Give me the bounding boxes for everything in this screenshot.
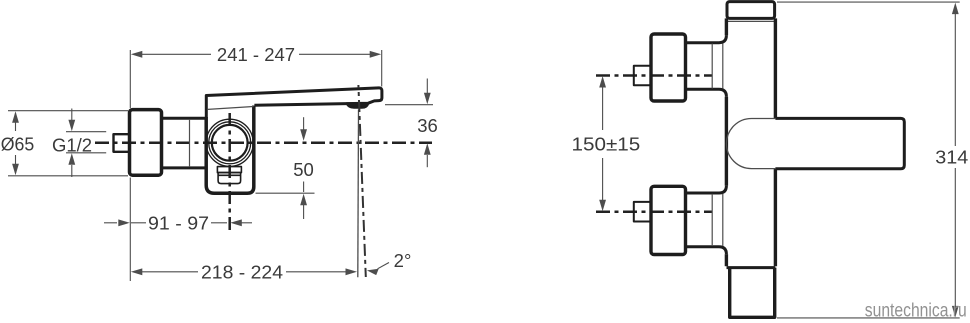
spout side view (206, 88, 382, 118)
centerline left view (95, 142, 432, 145)
water stream axis dashed (358, 85, 365, 277)
water stream solid (357, 110, 360, 278)
escutcheon side view (130, 110, 162, 176)
dimension G1/2 (66, 109, 106, 178)
svg-text:2°: 2° (394, 250, 412, 271)
svg-text:91 - 97: 91 - 97 (148, 212, 209, 233)
spout underside thin line (208, 107, 254, 110)
bottom ledge (727, 266, 776, 269)
bottom cap (730, 268, 775, 318)
column right edge (774, 18, 777, 266)
bottom neck (686, 186, 727, 255)
top cap (727, 2, 775, 22)
dimension 218-224 (131, 268, 357, 275)
column left edge (725, 18, 728, 266)
centerline cartridge vertical (228, 113, 231, 233)
dimension 36 (385, 79, 433, 168)
bottom handle (651, 186, 686, 254)
svg-text:36: 36 (417, 115, 438, 136)
centerline bottom valve (596, 210, 712, 213)
top nut (634, 66, 651, 86)
bottom nut (634, 202, 651, 222)
svg-text:218 - 224: 218 - 224 (201, 261, 283, 282)
svg-text:50: 50 (293, 159, 314, 180)
leader 2deg (367, 263, 389, 276)
dimension 241-247 (130, 50, 381, 108)
dimension 314 (777, 2, 960, 318)
svg-text:Ø65: Ø65 (1, 134, 35, 155)
body side view (206, 106, 254, 194)
svg-text:suntechnica.ru: suntechnica.ru (865, 301, 967, 322)
dimension 50 (256, 117, 315, 219)
spout front view (726, 118, 904, 168)
top neck (686, 35, 727, 96)
dimension 91-97 (104, 178, 252, 282)
dimension 150+-15 (599, 76, 606, 211)
inlet pipe G1/2 (114, 134, 130, 152)
svg-text:150±15: 150±15 (572, 134, 641, 155)
flange side view (162, 118, 207, 168)
centerline top valve (596, 74, 712, 77)
diverter knob (217, 167, 241, 184)
dimension D65 (8, 111, 128, 176)
svg-text:G1/2: G1/2 (52, 134, 92, 155)
svg-text:241 - 247: 241 - 247 (217, 44, 295, 65)
cartridge circles (206, 119, 253, 166)
top handle (651, 34, 686, 101)
svg-text:314: 314 (935, 147, 968, 168)
